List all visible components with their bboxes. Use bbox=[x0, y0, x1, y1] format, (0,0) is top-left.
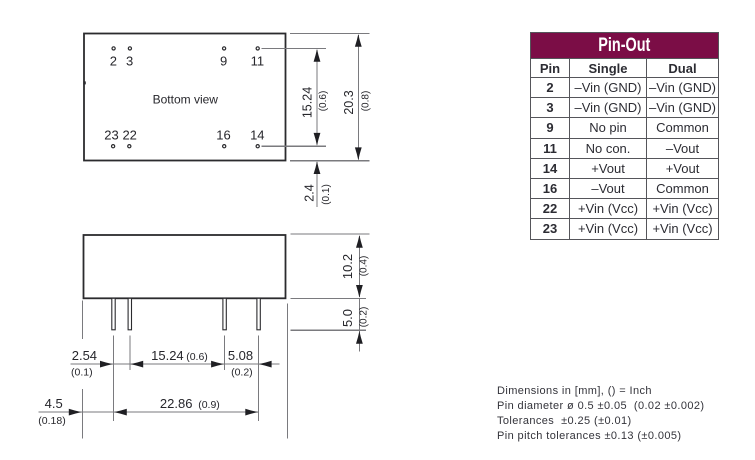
pin 3 hole bbox=[128, 47, 131, 50]
svg-text:2.4: 2.4 bbox=[302, 184, 316, 201]
svg-text:(0.6): (0.6) bbox=[186, 351, 208, 363]
dimension 2.4 (0.1) vertical bbox=[302, 161, 332, 207]
pin 1 lead bbox=[112, 298, 115, 330]
extension line under left edge bbox=[81, 301, 83, 340]
svg-text:2: 2 bbox=[110, 54, 117, 69]
svg-text:(0.2): (0.2) bbox=[231, 367, 253, 379]
extension line under pin 4 bbox=[258, 336, 260, 422]
extension line bottom of bottom view bbox=[290, 160, 370, 162]
svg-text:22: 22 bbox=[122, 128, 136, 143]
dimension 22.86 (0.9) horizontal bbox=[114, 396, 258, 416]
svg-text:Bottom view: Bottom view bbox=[153, 93, 219, 107]
pin 22 hole bbox=[128, 145, 131, 148]
svg-text:2.54: 2.54 bbox=[72, 348, 97, 363]
svg-text:(0.1): (0.1) bbox=[321, 184, 332, 205]
package outline bottom view bbox=[84, 34, 286, 161]
notch mark on left edge bbox=[83, 81, 85, 84]
dimension 10.2 (0.4) vertical bbox=[340, 235, 370, 298]
svg-text:3: 3 bbox=[126, 54, 133, 69]
svg-text:15.24: 15.24 bbox=[301, 87, 315, 118]
svg-text:15.24: 15.24 bbox=[151, 348, 184, 363]
pin 23 hole bbox=[112, 145, 115, 148]
dimension 15.24 (0.6) vertical bbox=[301, 49, 330, 146]
svg-text:11: 11 bbox=[251, 54, 265, 69]
pin 16 hole bbox=[223, 145, 226, 148]
svg-text:20.3: 20.3 bbox=[342, 90, 356, 114]
extension line right edge vertical bbox=[286, 304, 288, 439]
dimension 5.0 (0.2) vertical bbox=[340, 299, 370, 352]
pin 2 hole bbox=[112, 47, 115, 50]
pin number labels bottom row bbox=[104, 128, 264, 143]
svg-text:4.5: 4.5 bbox=[45, 396, 63, 411]
extension line under pin 2 bbox=[129, 336, 131, 371]
svg-text:9: 9 bbox=[220, 54, 227, 69]
svg-text:(0.6): (0.6) bbox=[318, 91, 329, 112]
extension line top of bottom view bbox=[290, 33, 370, 35]
svg-text:(0.4): (0.4) bbox=[359, 256, 370, 277]
svg-text:10.2: 10.2 bbox=[340, 254, 355, 279]
svg-text:(0.1): (0.1) bbox=[71, 367, 93, 379]
svg-text:22.86: 22.86 bbox=[160, 396, 193, 411]
svg-text:14: 14 bbox=[250, 128, 264, 143]
footnotes bbox=[497, 384, 704, 444]
extension line under pin 3 bbox=[224, 336, 226, 371]
pin 11 hole bbox=[256, 47, 259, 50]
svg-text:(0.2): (0.2) bbox=[359, 307, 370, 328]
svg-text:5.0: 5.0 bbox=[340, 309, 355, 327]
pin 9 hole bbox=[223, 47, 226, 50]
dimension 15.24 (0.6) horizontal bbox=[130, 348, 224, 368]
pin 14 hole bbox=[256, 145, 259, 148]
svg-text:16: 16 bbox=[216, 128, 230, 143]
pin 2 lead bbox=[128, 298, 131, 330]
svg-text:(0.9): (0.9) bbox=[198, 399, 220, 411]
leader line from pin 14 bbox=[262, 145, 327, 147]
pin number labels top row bbox=[110, 54, 264, 69]
extension line under pin 1 bbox=[113, 336, 115, 422]
extension line side view bottom bbox=[291, 298, 367, 300]
svg-text:23: 23 bbox=[104, 128, 118, 143]
svg-text:5.08: 5.08 bbox=[228, 348, 253, 363]
Pin-Out table bbox=[530, 32, 719, 240]
dimension 2.54 (0.1) horizontal bbox=[71, 348, 280, 379]
pin 3 lead bbox=[223, 298, 226, 330]
leader line from pin 11 bbox=[262, 47, 327, 49]
dimension 4.5 (0.18) horizontal bbox=[38, 396, 258, 427]
svg-text:(0.18): (0.18) bbox=[38, 415, 65, 427]
package outline side view bbox=[84, 235, 286, 298]
dimension 20.3 (0.8) vertical bbox=[342, 34, 371, 160]
dimension 5.08 (0.2) horizontal bbox=[228, 348, 272, 379]
pin 4 lead bbox=[257, 298, 260, 330]
svg-text:(0.8): (0.8) bbox=[360, 91, 371, 112]
extension line pin bottom bbox=[291, 329, 367, 331]
extension line side view top bbox=[291, 233, 370, 235]
